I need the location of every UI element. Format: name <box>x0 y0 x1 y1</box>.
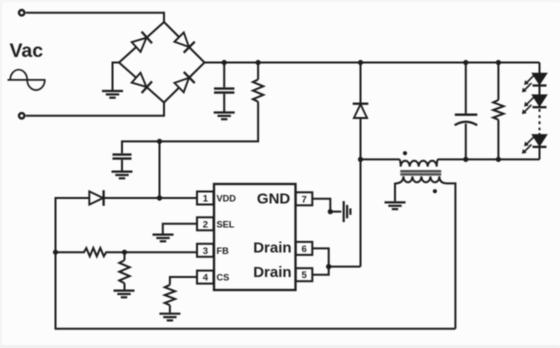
svg-text:3: 3 <box>203 246 208 257</box>
svg-text:7: 7 <box>302 194 307 205</box>
svg-text:Drain: Drain <box>253 240 291 257</box>
svg-text:2: 2 <box>203 219 208 230</box>
svg-text:6: 6 <box>302 244 307 255</box>
svg-text:VDD: VDD <box>217 193 237 203</box>
svg-text:Drain: Drain <box>253 264 291 281</box>
svg-text:SEL: SEL <box>217 219 235 229</box>
svg-text:FB: FB <box>217 246 230 256</box>
svg-text:GND: GND <box>257 191 291 208</box>
svg-text:5: 5 <box>302 270 308 281</box>
svg-text:1: 1 <box>203 194 209 205</box>
svg-text:Vac: Vac <box>10 40 44 62</box>
svg-text:CS: CS <box>217 272 230 282</box>
svg-text:4: 4 <box>203 273 209 284</box>
